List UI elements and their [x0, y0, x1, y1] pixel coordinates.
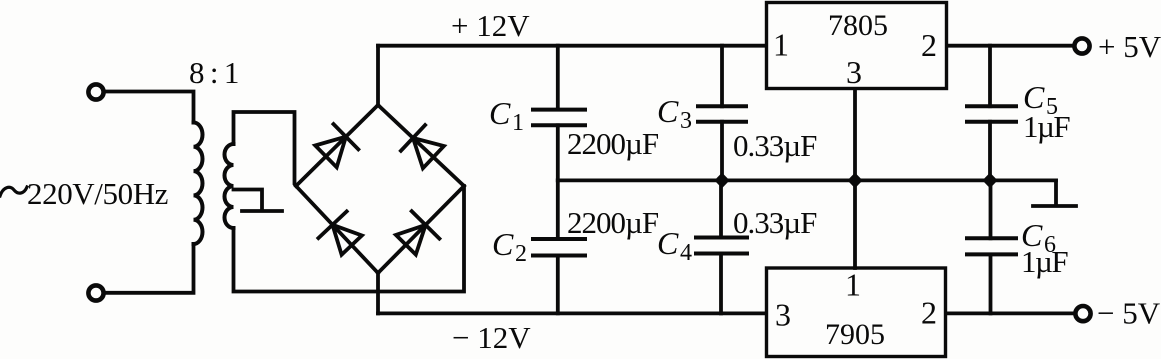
svg-text:C: C	[489, 95, 511, 131]
terminal bottom-left	[88, 285, 103, 300]
label 1uF (C6)	[1021, 244, 1068, 279]
svg-text:2: 2	[515, 241, 527, 267]
label 2200uF (C2)	[567, 205, 659, 240]
capacitor C5	[967, 46, 1016, 181]
diode D1 top-left	[296, 105, 378, 186]
middle 0V rail	[558, 178, 1056, 182]
label +12V	[451, 8, 530, 43]
capacitor C4	[696, 180, 747, 313]
svg-text:C: C	[492, 226, 514, 262]
wire secondary top to bridge left corner	[234, 112, 297, 186]
wire 7805 pin2 to +5V	[948, 44, 1072, 48]
junction dot C5/C6	[982, 173, 997, 189]
svg-text:7805: 7805	[828, 9, 888, 42]
wire secondary bottom to bridge right corner	[234, 186, 465, 292]
svg-text:3: 3	[680, 108, 692, 134]
svg-text:1: 1	[845, 267, 861, 303]
capacitor C2	[533, 180, 585, 313]
-12V rail	[378, 311, 766, 315]
svg-text:1: 1	[512, 110, 524, 136]
label C3	[657, 93, 692, 134]
ground center tap	[242, 209, 282, 213]
diode D3 bottom-left	[296, 186, 378, 273]
label 0.33uF (C3)	[733, 128, 817, 163]
label 0.33uF (C4)	[733, 205, 817, 240]
svg-text:2: 2	[921, 27, 937, 63]
svg-text:1µF: 1µF	[1021, 244, 1068, 279]
capacitor C3	[698, 46, 746, 181]
svg-text:3: 3	[846, 54, 862, 90]
svg-text:220V/50Hz: 220V/50Hz	[27, 176, 168, 211]
transformer primary winding	[194, 123, 203, 245]
junction dot C3/C4	[714, 173, 729, 189]
svg-text:0.33µF: 0.33µF	[733, 205, 817, 240]
transformer secondary winding	[225, 144, 234, 228]
wire 7905 pin2 to -5V	[946, 311, 1073, 315]
svg-text:0.33µF: 0.33µF	[733, 128, 817, 163]
svg-text:C: C	[657, 225, 679, 261]
svg-text:1µF: 1µF	[1023, 109, 1070, 144]
svg-text:1: 1	[773, 27, 789, 63]
svg-text:+ 5V: + 5V	[1098, 29, 1161, 64]
svg-text:3: 3	[775, 297, 791, 333]
junction dot regulators	[847, 173, 862, 189]
terminal top-left	[88, 84, 103, 99]
label 8:1	[189, 55, 238, 90]
wire top terminal to primary	[106, 92, 194, 123]
+12V rail	[378, 44, 766, 48]
wire 7805 pin3 to mid rail to 7905 pin1	[853, 90, 857, 268]
svg-text:4: 4	[680, 240, 692, 266]
svg-text:2200µF: 2200µF	[567, 205, 659, 240]
wire bridge top to +12V rail	[376, 46, 380, 105]
wire primary bottom to terminal	[106, 244, 194, 293]
tilde of AC label	[0, 187, 27, 196]
label C6	[1021, 217, 1056, 258]
svg-text:2200µF: 2200µF	[567, 126, 659, 161]
label 1uF (C5)	[1023, 109, 1070, 144]
svg-text:− 12V: − 12V	[452, 320, 531, 355]
wire bridge bottom to -12V rail	[376, 273, 380, 313]
diode D2 top-right	[378, 105, 464, 186]
label C2	[492, 226, 527, 267]
label C1	[489, 95, 524, 136]
labels 7905 pins	[775, 267, 937, 352]
label C5	[1023, 79, 1058, 120]
terminal +5V	[1074, 38, 1089, 53]
labels 7805 pins	[773, 9, 937, 90]
label 2200uF (C1)	[567, 126, 659, 161]
svg-text:+ 12V: + 12V	[451, 8, 530, 43]
label -5V	[1097, 296, 1161, 331]
AC source label ~220V/50Hz	[27, 176, 168, 211]
svg-text:8 : 1: 8 : 1	[189, 55, 238, 90]
label -12V	[452, 320, 531, 355]
svg-text:7905: 7905	[825, 318, 885, 351]
center tap wire	[234, 190, 263, 210]
ground right	[1054, 180, 1058, 204]
regulator U2 7905 box	[767, 268, 946, 357]
capacitor C1	[533, 46, 585, 181]
label C4	[657, 225, 692, 266]
diode D4 bottom-right	[378, 186, 464, 273]
capacitor C6	[967, 180, 1016, 313]
svg-text:− 5V: − 5V	[1097, 296, 1161, 331]
svg-text:C: C	[657, 93, 679, 129]
regulator U1 7805 box	[767, 3, 947, 89]
svg-text:2: 2	[921, 295, 937, 331]
label +5V	[1098, 29, 1161, 64]
terminal -5V	[1075, 306, 1090, 321]
